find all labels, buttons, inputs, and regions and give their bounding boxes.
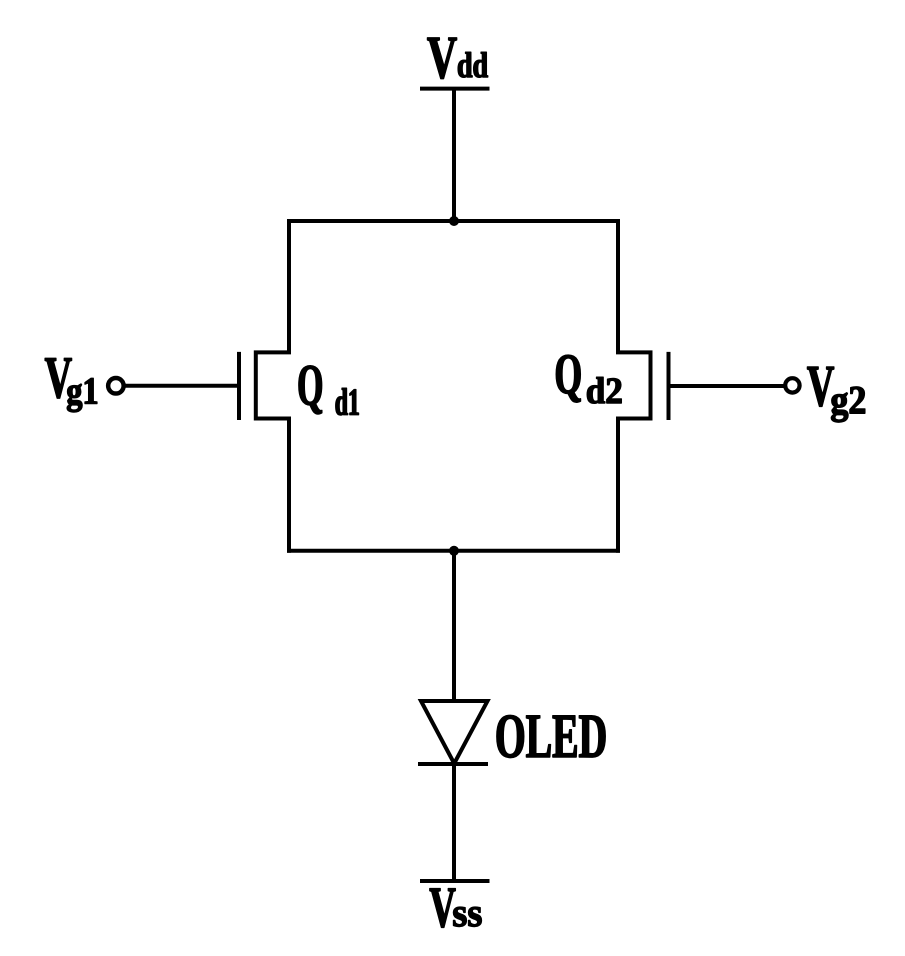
transistor Q_d1 body (left branch with source/drain notch)	[256, 219, 289, 553]
label Vg1: subscript g1	[67, 378, 97, 412]
wire OLED cathode to Vss	[452, 764, 456, 881]
label Vg2: subscript g2	[831, 387, 865, 422]
terminal circle Vg1	[108, 378, 124, 394]
wire bottom node to OLED anode	[452, 551, 456, 701]
transistor Q_d2 body (right branch with source/drain notch)	[618, 219, 651, 553]
wire Vdd to top node	[452, 89, 456, 221]
label Vg2: V	[807, 367, 833, 406]
label Vg1: V	[45, 358, 71, 398]
node junction dot bottom	[449, 546, 459, 556]
label Qd2: subscript d2	[587, 377, 621, 403]
wire Vg1 to gate of Q_d1	[124, 384, 239, 388]
OLED diode cathode bar	[418, 762, 488, 766]
transistor Q_d1 gate bar	[237, 352, 241, 420]
label Vss: V	[430, 889, 456, 928]
label Qd1: subscript d1	[336, 388, 359, 415]
power rail Vss bar	[420, 879, 490, 883]
wire gate of Q_d2 to Vg2	[669, 384, 785, 388]
label Vss: subscript ss	[453, 907, 481, 926]
label Qd1: Q	[299, 366, 322, 414]
OLED diode triangle (anode)	[421, 701, 488, 764]
label OLED	[497, 715, 605, 757]
label Vdd: V	[427, 38, 456, 79]
wire bottom rail	[287, 549, 620, 553]
label Qd2: Q	[556, 355, 580, 402]
node junction dot top	[449, 216, 459, 226]
transistor Q_d2 gate bar	[667, 352, 671, 420]
terminal circle Vg2	[785, 378, 799, 392]
label Vdd: subscript dd	[458, 52, 488, 77]
power rail Vdd bar	[420, 87, 490, 91]
wire top rail	[287, 219, 620, 223]
